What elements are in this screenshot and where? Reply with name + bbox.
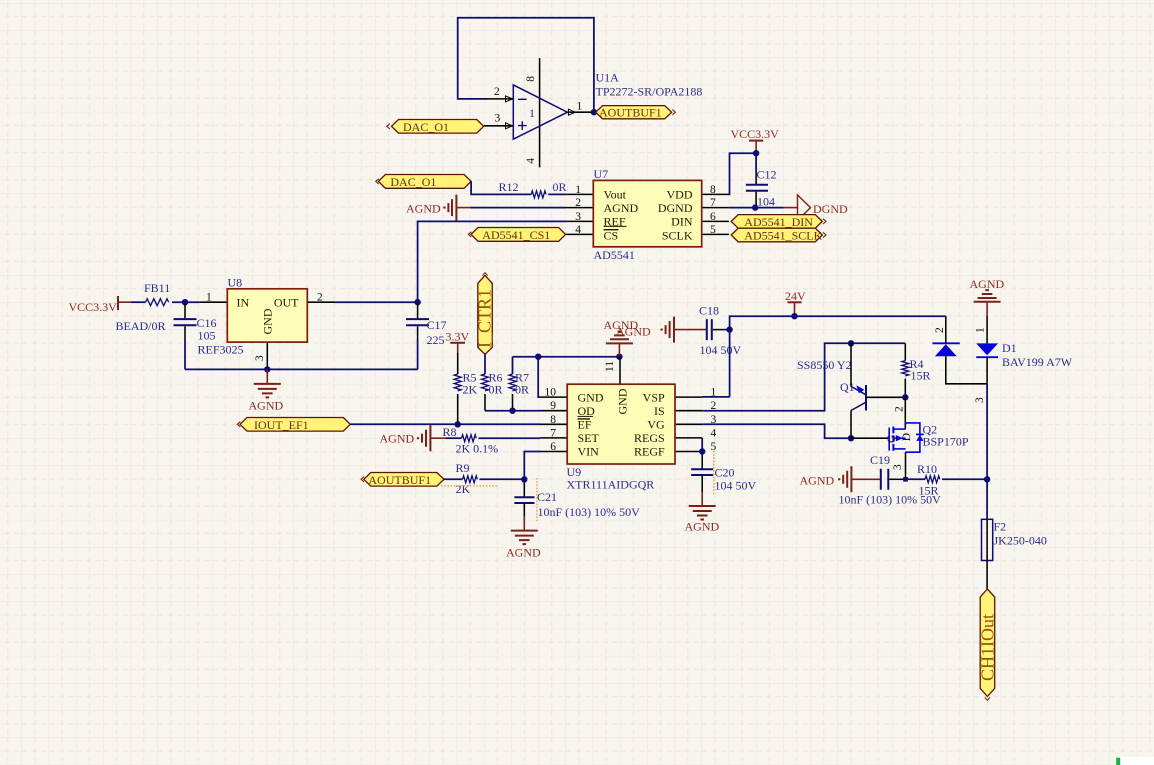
svg-text:AGND: AGND [800, 474, 835, 488]
port DAC_O1 left direction chevron [387, 124, 390, 129]
capacitor C19 plates (vertical) [881, 469, 889, 490]
op-amp U1A pin 2 lead [486, 98, 513, 100]
port AD5541_DIN [731, 215, 822, 229]
D1 pin 1 lead [986, 316, 988, 343]
svg-text:AGND: AGND [406, 201, 441, 215]
port AD5541_SCLK right chevron [823, 232, 826, 237]
sheet corner (bottom right, outside sheet) [1120, 757, 1154, 765]
wire AGND to U7 pin 2 [471, 207, 567, 209]
capacitor C17 bottom lead [417, 326, 419, 340]
capacitor C16 bottom lead [184, 326, 186, 340]
resistor R6 zigzag [482, 374, 489, 391]
resistor R12 zigzag [531, 191, 546, 198]
D1 right diode triangle (pointing down) [976, 343, 998, 355]
svg-text:SS8550 Y2: SS8550 Y2 [797, 358, 852, 372]
wire VCC3.3V node to U7 pin 8 [729, 153, 757, 194]
svg-text:1: 1 [577, 101, 583, 113]
wire U8 OUT to C17 node [335, 301, 418, 303]
svg-text:24V: 24V [785, 289, 806, 303]
wire U9 pin3 VG to Q2 gate node [702, 424, 851, 438]
svg-text:U7: U7 [594, 167, 609, 181]
svg-text:G: G [886, 435, 898, 443]
body diode triangle [916, 435, 923, 441]
svg-text:VDD: VDD [667, 188, 693, 202]
junction C16 node [182, 299, 188, 305]
svg-text:REF3025: REF3025 [198, 343, 244, 357]
transistor Q1 emitter diagonal + arrow [851, 386, 866, 394]
port AD5541_DIN right chevron [823, 219, 826, 224]
wire D1 pin3 down to R10 node [986, 384, 988, 480]
svg-text:AGND: AGND [616, 325, 651, 339]
port CH1IOut bottom chevron [985, 697, 990, 700]
svg-text:Vout: Vout [604, 188, 627, 202]
svg-text:2: 2 [494, 86, 500, 98]
svg-text:OUT: OUT [274, 295, 299, 309]
junction R4/base/Q2 [902, 394, 908, 400]
svg-text:1: 1 [206, 292, 212, 304]
D1 left anode lead [946, 356, 987, 384]
wire U7 pin 3 REF to C17 node [418, 221, 566, 302]
svg-text:225: 225 [427, 333, 445, 347]
op-amp U1A triangle [513, 85, 567, 139]
svg-text:R8: R8 [443, 425, 457, 439]
svg-text:SCLK: SCLK [662, 229, 693, 243]
svg-text:C18: C18 [699, 304, 719, 318]
U8 pin 2 stub [307, 301, 334, 303]
wire VCC3.3V to FB11 [131, 301, 146, 303]
svg-text:7: 7 [550, 427, 556, 439]
transistor Q1 collector diagonal [851, 402, 866, 410]
capacitor C21 top lead [523, 479, 525, 483]
port I_CTR1 top chevron [482, 273, 487, 276]
ERC marker at C21 [536, 478, 538, 522]
svg-text:C12: C12 [757, 168, 777, 182]
wire 24V rail [730, 316, 946, 397]
resistor R5 lead + zigzag [457, 353, 459, 374]
svg-text:2: 2 [575, 197, 581, 209]
svg-text:3: 3 [495, 113, 501, 125]
svg-text:4: 4 [525, 158, 537, 164]
green sheet-tab marker [1116, 758, 1120, 765]
pin 2 input arrow glyph [506, 96, 513, 102]
resistor R4 bottom lead [904, 379, 906, 398]
IC body U8 [227, 289, 307, 342]
svg-text:DAC_O1: DAC_O1 [403, 120, 449, 134]
svg-text:DGND: DGND [658, 201, 693, 215]
svg-text:AGND: AGND [604, 201, 639, 215]
svg-text:1: 1 [575, 184, 581, 196]
junction rail/U9 pin11 [616, 354, 622, 360]
svg-text:8: 8 [525, 76, 537, 82]
wire port to R12 [471, 181, 531, 194]
svg-text:AD5541_SCLK: AD5541_SCLK [744, 229, 822, 243]
U9 right pin stubs 1-5 [675, 397, 702, 451]
svg-text:U8: U8 [228, 276, 243, 290]
resistor R4 zigzag [902, 361, 909, 376]
port CH1IOut (vertical) [980, 589, 995, 696]
svg-text:VCC3.3V: VCC3.3V [731, 127, 780, 141]
svg-text:R10: R10 [917, 462, 937, 476]
svg-text:10: 10 [545, 387, 557, 399]
mosfet Q2 gate lead [851, 437, 888, 439]
wire AGND rail above U9 [513, 356, 620, 358]
power port AGND (rotated, at C18) [660, 328, 662, 330]
svg-text:8: 8 [550, 414, 556, 426]
mosfet Q2 source lead [893, 448, 905, 450]
wire U9 pin4 to pin5 join [701, 438, 703, 452]
svg-text:BSP170P: BSP170P [923, 435, 969, 449]
junction U8 pin3/ground [264, 366, 270, 372]
junction at op-amp output [591, 109, 597, 115]
D1 right cathode bar [976, 356, 998, 358]
wire R6 bottom to U9 pin 9 [485, 410, 540, 412]
mosfet Q2 source wire down [905, 452, 907, 479]
D1 left cathode bar [933, 342, 960, 344]
wire to Q2 drain [904, 397, 906, 429]
junction C12/DGND [752, 204, 758, 210]
svg-text:0R: 0R [553, 180, 567, 194]
svg-text:3: 3 [575, 211, 581, 223]
junction R5/EF wire [455, 421, 461, 427]
svg-text:AD5541: AD5541 [594, 248, 635, 262]
capacitor C17 plates [406, 319, 429, 325]
svg-text:C19: C19 [870, 453, 890, 467]
capacitor C18 right lead [713, 329, 726, 331]
svg-text:104 50V: 104 50V [715, 479, 757, 493]
svg-text:GND: GND [578, 390, 604, 404]
wire down to fuse F2 [986, 479, 988, 519]
svg-text:1: 1 [529, 106, 535, 120]
ground AGND (inverted, above U9 pin 11) [618, 343, 620, 356]
port AOUTBUF1 left chevron [361, 477, 364, 482]
svg-text:AGND: AGND [685, 520, 720, 534]
body diode cathode bar [916, 433, 924, 435]
U9 pin 11 stub (top) [619, 357, 621, 385]
port DAC_O1 (to R12) [378, 175, 471, 189]
mosfet Q2 drain lead [893, 428, 905, 430]
svg-text:BEAD/0R: BEAD/0R [116, 319, 166, 333]
svg-text:104: 104 [757, 195, 775, 209]
junction pin5/C20 [699, 448, 705, 454]
svg-text:3: 3 [974, 397, 986, 403]
svg-text:2: 2 [934, 327, 946, 333]
fuse F2 body [986, 519, 988, 560]
port DAC_O1 left chevron [376, 179, 379, 184]
svg-text:SET: SET [578, 431, 600, 445]
port AD5541_CS1 [471, 228, 566, 242]
wire port to R9 [444, 478, 463, 480]
capacitor C12 top lead [755, 153, 757, 171]
op-amp U1A pin 3 lead [484, 125, 513, 127]
ground AGND (below C20) [689, 506, 716, 520]
svg-text:AGND: AGND [970, 277, 1005, 291]
port I_CTR1 (vertical) [478, 275, 493, 354]
wire R12 to U7 pin 1 [548, 193, 566, 195]
op-amp U1A power pins 8/4 vertical line [539, 58, 541, 167]
wire R9 to U9 pin 6 [480, 452, 541, 480]
svg-text:AOUTBUF1: AOUTBUF1 [599, 105, 662, 119]
svg-text:VG: VG [647, 418, 665, 432]
ERC marker at C20 [713, 451, 715, 494]
svg-text:TP2272-SR/OPA2188: TP2272-SR/OPA2188 [596, 85, 703, 99]
svg-text:U1A: U1A [596, 71, 620, 85]
svg-text:105: 105 [198, 329, 216, 343]
svg-text:2K: 2K [463, 383, 478, 397]
svg-text:DGND: DGND [813, 202, 848, 216]
svg-text:REGS: REGS [634, 431, 665, 445]
wire fuse to CH1IOut port [986, 561, 988, 590]
svg-text:REGF: REGF [634, 445, 665, 459]
junction R10/output column [984, 476, 990, 482]
op-amp plus sign [518, 121, 527, 130]
svg-text:0R: 0R [489, 383, 503, 397]
svg-text:FB11: FB11 [144, 281, 170, 295]
svg-text:I_CTR1: I_CTR1 [475, 289, 495, 348]
mosfet Q2 channel segments [892, 427, 894, 451]
svg-text:GND: GND [261, 308, 275, 334]
U8 pin 3 stub [266, 342, 268, 369]
port AOUTBUF1 (op-amp output) [596, 106, 672, 119]
wire U9 pin2 IS to Q1 rail [702, 343, 905, 410]
capacitor C12 plates [746, 185, 768, 191]
capacitor C19 right lead [889, 478, 903, 480]
svg-text:CS: CS [604, 229, 619, 243]
junction at VCC3.3V node [753, 150, 759, 156]
ERC marker under R9 [441, 485, 499, 487]
svg-text:AGND: AGND [380, 431, 415, 445]
wire U7 pin7 to DGND [729, 207, 784, 209]
svg-text:2K: 2K [456, 482, 471, 496]
port AD5541_SCLK [731, 228, 822, 242]
ferrite bead FB11 zigzag [146, 299, 169, 306]
capacitor C16 top lead [184, 304, 186, 318]
svg-text:IN: IN [237, 295, 250, 309]
resistor R10 zigzag [925, 476, 940, 483]
wire FB11 to U8 pin 1 [172, 301, 199, 303]
wire bottom rail U8 ground [185, 368, 418, 370]
op-amp U1A output pin 1 lead [567, 111, 594, 113]
capacitor C21 bottom lead [523, 504, 525, 516]
port IOUT_EF1 [240, 418, 350, 432]
junction R7/pin9 [509, 408, 515, 414]
svg-text:F2: F2 [994, 520, 1007, 534]
svg-text:DIN: DIN [671, 215, 693, 229]
wire VSP pin 1 to rail column [702, 396, 729, 398]
transistor Q1 emitter lead [850, 343, 852, 386]
wire Q2 source to R10 [906, 478, 926, 480]
svg-text:C17: C17 [427, 318, 447, 332]
mosfet Q2 body diode branch [906, 423, 920, 452]
transistor Q1 base bar [865, 385, 867, 411]
wire R8 to U9 pin 7 [479, 437, 541, 439]
svg-text:EF: EF [578, 418, 592, 432]
resistor R7 zigzag [509, 374, 516, 391]
svg-text:1: 1 [975, 327, 987, 333]
svg-text:AOUTBUF1: AOUTBUF1 [368, 473, 431, 487]
junction Q1 emitter rail [848, 340, 854, 346]
svg-text:OD: OD [578, 404, 596, 418]
svg-text:10nF (103) 10% 50V: 10nF (103) 10% 50V [538, 505, 641, 519]
resistor R4 top lead [904, 343, 906, 360]
power port DGND arrow [798, 195, 811, 221]
port AD5541_CS1 left chevron [468, 232, 471, 237]
svg-text:15R: 15R [911, 369, 931, 383]
svg-text:4: 4 [711, 427, 717, 439]
wire feedback loop output to inverting input [458, 18, 594, 112]
ground AGND (below C21) [511, 531, 538, 545]
svg-text:104 50V: 104 50V [700, 343, 742, 357]
svg-text:7: 7 [710, 197, 716, 209]
junction C17 node [414, 299, 420, 305]
transistor Q1 base lead [866, 396, 905, 398]
svg-text:VCC3.3V: VCC3.3V [69, 300, 118, 314]
svg-text:CH1IOut: CH1IOut [977, 614, 997, 681]
junction rail/pin10 [535, 354, 541, 360]
svg-text:AD5541_CS1: AD5541_CS1 [482, 228, 550, 242]
svg-text:2: 2 [894, 406, 906, 412]
resistor R9 zigzag [463, 476, 478, 483]
svg-text:JK250-040: JK250-040 [994, 534, 1047, 548]
svg-text:IS: IS [654, 404, 665, 418]
mosfet Q2 bulk lead + arrow [895, 437, 906, 439]
junction Q2 gate node [848, 435, 854, 441]
capacitor C20 top lead [701, 452, 703, 456]
wire IOUT_EF1 to U9 pin 8 [350, 423, 540, 425]
wire I_CTR1 to R6 [484, 354, 486, 374]
svg-text:5: 5 [710, 224, 716, 236]
op-amp minus sign [518, 98, 527, 100]
svg-text:IOUT_EF1: IOUT_EF1 [254, 418, 309, 432]
junction C21 tap [521, 476, 527, 482]
svg-text:C21: C21 [537, 490, 557, 504]
wire R10 to output column [942, 478, 987, 480]
pin 3 input arrow glyph [506, 123, 513, 129]
svg-text:VIN: VIN [578, 445, 600, 459]
D1 left diode triangle (pointing up) [935, 344, 957, 356]
svg-text:11: 11 [604, 361, 616, 372]
mosfet Q2 gate bar [888, 428, 890, 451]
svg-text:6: 6 [710, 211, 716, 223]
wire rail down to U9 pin 10 [538, 357, 540, 397]
capacitor C21 plates [514, 497, 534, 503]
svg-text:D: D [901, 433, 913, 441]
svg-text:15R: 15R [919, 484, 939, 498]
svg-text:3.3V: 3.3V [446, 330, 470, 344]
svg-text:2: 2 [317, 292, 323, 304]
resistor R7 top lead [512, 357, 514, 374]
svg-text:2K 0.1%: 2K 0.1% [456, 442, 499, 456]
svg-text:VSP: VSP [643, 390, 665, 404]
port AOUTBUF1 (to R9) [364, 473, 444, 487]
capacitor C20 bottom lead [701, 476, 703, 492]
wire 24V rail corner to D1 pin 2 [945, 316, 947, 343]
transistor Q1 collector lead [850, 411, 852, 439]
capacitor C12 bottom lead [755, 192, 757, 208]
port IOUT_EF1 left chevron [237, 422, 240, 427]
U8 pin 1 stub [199, 301, 227, 303]
svg-text:R9: R9 [456, 461, 470, 475]
U7 left pin stubs 1-4 [566, 194, 593, 234]
pin 1 output arrow glyph [568, 109, 575, 115]
capacitor C18 plates (vertical) [707, 319, 712, 340]
capacitor C17 top lead [417, 304, 419, 318]
svg-text:3: 3 [892, 464, 904, 470]
svg-text:DAC_O1: DAC_O1 [390, 175, 436, 189]
svg-text:R12: R12 [499, 180, 519, 194]
U9 left pin stubs 10-6 [540, 397, 567, 451]
port AOUTBUF1 right direction chevron [672, 110, 675, 115]
svg-text:3: 3 [254, 355, 266, 361]
port DAC_O1 (to op-amp pin 3) [392, 120, 484, 134]
U7 right pin stubs 8-5 [702, 194, 729, 234]
svg-text:BAV199 A7W: BAV199 A7W [1002, 355, 1073, 369]
svg-text:GND: GND [616, 388, 630, 414]
svg-text:9: 9 [550, 400, 556, 412]
svg-text:4: 4 [575, 224, 581, 236]
svg-text:XTR111AIDGQR: XTR111AIDGQR [567, 478, 655, 492]
svg-text:AD5541_DIN: AD5541_DIN [744, 215, 813, 229]
svg-text:D1: D1 [1002, 341, 1017, 355]
svg-text:6: 6 [550, 441, 556, 453]
wire AGND to R8 [446, 437, 462, 439]
capacitor C20 plates [691, 469, 713, 475]
svg-text:0R: 0R [515, 383, 529, 397]
svg-text:8: 8 [710, 184, 716, 196]
junction C18/24V column [726, 326, 732, 332]
svg-text:AGND: AGND [249, 399, 284, 413]
D1 pin 3 lead [986, 357, 988, 384]
ground AGND (below U8) [266, 369, 268, 384]
IC body U9 [567, 384, 675, 464]
svg-text:AGND: AGND [506, 546, 541, 560]
resistor R8 zigzag [462, 435, 477, 442]
capacitor C16 plates [174, 319, 197, 325]
junction 24V tap [791, 313, 797, 319]
junction (square) C19/Q2/R10 [903, 477, 908, 482]
IC body U7 [593, 180, 701, 246]
svg-text:C20: C20 [715, 466, 735, 480]
